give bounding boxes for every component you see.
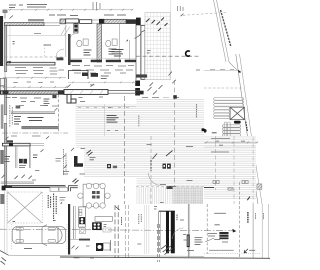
dark C hook mark	[186, 51, 190, 56]
garage west wall faint lines	[4, 190, 6, 253]
dark arrow mark	[60, 202, 62, 204]
window lines between piers	[92, 19, 99, 21]
dashed axis x174.5	[174, 80, 176, 204]
interior ceiling line	[7, 34, 66, 36]
bold slashes C3	[153, 151, 173, 160]
washer dark	[96, 243, 103, 251]
corner hatch marks	[1, 258, 7, 265]
interior faint line	[9, 26, 11, 61]
dim tick row	[72, 65, 134, 68]
axis end dark mark	[232, 229, 236, 233]
thin interior wall	[11, 111, 55, 113]
counter top squares	[79, 209, 82, 212]
bath text 3 (large block)	[112, 50, 124, 57]
corridor line	[71, 57, 137, 59]
bold slashes at dining door	[73, 179, 79, 184]
vertical texts	[255, 213, 257, 219]
L-foot	[71, 99, 76, 103]
texts under axis	[11, 135, 41, 137]
opening thin lines	[30, 143, 44, 145]
vertical lines east	[252, 204, 254, 258]
dark vertical text	[247, 212, 249, 223]
wc 2	[106, 40, 111, 46]
tile grid	[145, 13, 171, 80]
1.28 text	[249, 249, 255, 251]
B2 balcony dark bars	[82, 73, 88, 77]
diagonal mark	[205, 238, 214, 242]
vertical text columns	[10, 105, 13, 127]
west balcony slabs outlined	[0, 78, 4, 85]
5.8 text	[108, 107, 111, 109]
south boundary dark	[60, 257, 270, 258]
dark cluster bottom	[167, 186, 177, 189]
vertical dim text column top	[93, 2, 100, 10]
dark marks above wall	[7, 140, 14, 142]
sink counter bottom	[80, 228, 86, 234]
marker square white center	[107, 164, 111, 168]
stall marks	[213, 181, 248, 184]
dim text row 2	[49, 14, 126, 17]
arrow mark	[244, 249, 248, 253]
dark pier	[99, 19, 104, 24]
hatch steps	[228, 188, 233, 191]
dashed axis x151	[150, 136, 152, 204]
diagonal tick	[181, 14, 184, 17]
white wall rect center	[64, 90, 108, 95]
deck dash marks row2	[107, 130, 118, 132]
garage rotated text columns	[48, 194, 56, 220]
NE corner pillar	[136, 18, 141, 26]
wall end dark blocks	[3, 90, 9, 94]
stair cap	[159, 211, 175, 212]
axis dash-dot through plan	[0, 229, 236, 231]
bath text 2	[109, 49, 117, 54]
dim line	[204, 70, 238, 72]
divider dark block	[7, 61, 11, 63]
vertical board strip south	[137, 187, 173, 204]
chairs circles	[78, 183, 111, 208]
dashed line mid courtyard	[136, 55, 200, 57]
5.51 text	[32, 180, 66, 200]
thin wall line	[1, 181, 34, 183]
bath text 1	[84, 50, 92, 55]
bold slashes	[87, 150, 93, 156]
garage door X	[8, 192, 43, 223]
section pair 1	[115, 205, 118, 258]
wall pier white 1	[66, 19, 79, 23]
garage north wall	[4, 185, 65, 188]
sparse hatch inside	[70, 91, 103, 94]
door arc hall	[56, 49, 64, 57]
fixture block dark	[19, 159, 23, 164]
room label text block SE	[195, 238, 203, 245]
wall line	[110, 240, 112, 251]
slash marks above center wall	[67, 84, 94, 88]
hall dashed line	[5, 56, 64, 58]
road label rotated	[221, 10, 232, 47]
hatch pier	[60, 19, 66, 24]
neighbour gray bar lower	[1, 104, 4, 128]
counter	[79, 207, 86, 227]
hatch band east part	[104, 19, 126, 23]
marker squares pair	[163, 164, 167, 169]
bad text	[5, 157, 11, 162]
treppe rotated texts	[139, 214, 142, 224]
road slash mark	[247, 197, 250, 201]
axis dark dashes	[150, 160, 152, 171]
partition vertical 2	[29, 146, 31, 168]
vertical dim marks east of rooms	[64, 149, 67, 175]
furniture dark bars	[219, 232, 228, 239]
L-leg	[67, 94, 71, 103]
dashed edge	[136, 186, 204, 188]
SW corner boundary	[0, 251, 9, 256]
door arc	[173, 228, 184, 239]
dark band NE	[126, 19, 136, 24]
dim ticks y77.8	[4, 77, 61, 79]
dryer white	[104, 243, 111, 250]
terrace west edge line	[103, 104, 105, 136]
gray slab	[22, 126, 59, 129]
radiator marks	[16, 106, 21, 109]
tick marks courtyard	[169, 72, 176, 84]
marker pair 2	[113, 166, 117, 169]
2.26 text	[147, 144, 152, 146]
dotted line	[204, 252, 260, 254]
west window lines	[4, 72, 6, 79]
kitchen south wall	[79, 239, 90, 241]
dining room corner walls	[69, 186, 78, 192]
dashed axes south	[215, 136, 217, 190]
dark door post with hinges	[74, 24, 78, 33]
window opening lines	[44, 22, 60, 24]
1.11 text	[56, 159, 62, 162]
divider line right	[187, 204, 189, 258]
bath partition wall	[97, 24, 102, 62]
terrace text block	[107, 116, 119, 123]
room area text	[214, 212, 226, 214]
white rects right	[103, 228, 111, 232]
small text in grid	[147, 51, 151, 54]
east wall lower dark blocks	[135, 81, 140, 87]
dashed axis x124	[123, 96, 125, 204]
south edge line	[204, 187, 214, 189]
dim text row top-left	[9, 5, 47, 8]
stair top texts	[154, 202, 180, 209]
deck marks row	[78, 107, 129, 109]
door slash row	[2, 175, 32, 179]
section marks top	[116, 207, 120, 211]
dark L wall piece	[74, 156, 83, 167]
bath south wall segments	[71, 60, 137, 63]
survey dot CB	[203, 129, 207, 133]
text 1.18	[34, 32, 41, 34]
dim line	[204, 141, 258, 143]
dashed setback line	[204, 87, 244, 89]
text row 2	[211, 151, 229, 153]
west corner hatch band	[4, 23, 44, 26]
text below boundary	[74, 257, 95, 259]
wheels	[16, 228, 56, 243]
neighbour black wall bar	[0, 16, 3, 66]
shaft dark	[187, 235, 190, 248]
marks	[41, 149, 44, 152]
texts above row	[214, 225, 228, 242]
1.18 text east courtyard	[196, 69, 200, 71]
parking stripes band2	[222, 122, 240, 138]
west block 3	[0, 150, 4, 164]
east wall inner face	[135, 24, 137, 80]
road arrow dark	[238, 70, 241, 73]
partition line	[119, 24, 121, 62]
door arrow mark	[126, 39, 128, 41]
WOHNEN text	[28, 118, 44, 121]
hall partition faint lines	[144, 205, 149, 254]
light slashes	[63, 148, 75, 168]
texts below divider	[15, 68, 64, 75]
table setting dark cluster	[92, 191, 100, 199]
room divider wall	[2, 143, 30, 146]
car	[12, 225, 65, 246]
diagonal ticks	[6, 136, 50, 139]
kitchen west wall	[72, 206, 74, 239]
vertical partition	[65, 25, 67, 57]
door arc C3	[149, 173, 161, 185]
room label text block	[44, 99, 50, 106]
sink 2	[112, 39, 117, 45]
dim line y77.8	[3, 77, 66, 79]
corner tick NW	[10, 16, 14, 19]
rotated text east deck	[196, 104, 198, 118]
road rotated text	[246, 122, 248, 132]
threshold dark marks	[56, 57, 63, 60]
text row 1	[211, 137, 230, 139]
partition vertical 1	[15, 146, 17, 168]
survey marker B	[202, 128, 205, 131]
parking spot dotted bounds	[11, 224, 67, 249]
south boundary thin	[9, 255, 205, 256]
east wall white bar	[141, 25, 145, 79]
vertical text right of stairs	[176, 215, 178, 221]
island rect	[95, 217, 112, 222]
lintel gray bar	[28, 19, 44, 21]
west block 4	[0, 194, 4, 204]
room texts	[44, 44, 71, 46]
dimension line top	[8, 9, 133, 11]
hatched west part	[1, 91, 65, 94]
texts right of stairs	[180, 220, 187, 240]
long text row	[209, 249, 234, 251]
small block far NW (tree symbol)	[3, 10, 8, 14]
sink 1	[83, 39, 88, 45]
dim line B2	[68, 81, 136, 83]
door post cluster	[52, 95, 56, 98]
dark block at east wall	[136, 91, 144, 95]
apartment divider wall	[7, 62, 56, 65]
texts left of table	[63, 172, 85, 175]
1.38 text	[35, 170, 39, 172]
vertical text right	[121, 217, 123, 225]
appliance dark	[79, 217, 85, 224]
top small text column	[178, 6, 184, 11]
section dashed x58.3	[57, 95, 59, 134]
dining table	[83, 184, 104, 206]
thin line	[204, 146, 256, 148]
room label block	[14, 117, 21, 125]
cooktop cluster dark	[92, 222, 102, 230]
corridor west wall	[68, 34, 71, 65]
corridor text rows B2	[72, 70, 133, 73]
wall break zigzag	[135, 30, 146, 39]
room divider line	[129, 40, 131, 62]
stair bottom hatch	[161, 245, 173, 255]
faint dashed boundary to road	[183, 12, 228, 15]
text rows under wall	[6, 97, 104, 102]
dashed partition	[44, 44, 46, 57]
text near island	[104, 225, 107, 227]
4.30 text	[137, 243, 141, 245]
entrance door swings	[61, 26, 70, 36]
black car east	[234, 121, 241, 124]
stair core dark bars	[166, 211, 169, 253]
gwz text	[33, 155, 38, 158]
text under shaft	[187, 250, 194, 252]
door arc top	[71, 34, 75, 38]
party wall dark	[68, 204, 70, 255]
1.99 text	[86, 245, 90, 247]
section pair 2	[158, 224, 160, 262]
door swing slashes courtyard	[148, 83, 163, 95]
wall start block	[2, 186, 6, 191]
dim text under car	[24, 248, 32, 250]
courtyard dim row	[142, 97, 179, 100]
dash-dot axis y133	[2, 132, 68, 134]
dim text 1.18 row	[13, 81, 54, 84]
dimension ticks top	[9, 9, 133, 11]
east balcony slab	[136, 74, 147, 77]
tiny G text	[13, 42, 15, 44]
garage door box dotted	[8, 192, 43, 223]
east text column	[138, 116, 140, 127]
trellis X square	[230, 107, 244, 120]
stair side rail	[158, 212, 160, 253]
west wall double (gray)	[4, 26, 6, 72]
plant labels diagonal	[146, 18, 168, 32]
parking stripes band1	[214, 98, 244, 119]
texts C3	[160, 147, 193, 185]
thin double wall to east	[108, 89, 140, 91]
dim texts	[215, 141, 245, 145]
kitchen ticks	[72, 246, 79, 250]
section pair 2	[126, 205, 129, 258]
axis marker	[173, 95, 177, 99]
texts	[81, 149, 96, 160]
car top texts	[13, 221, 56, 222]
storage boxes along garage wall	[50, 187, 68, 191]
dashed border right	[239, 182, 241, 257]
dim line above wall	[3, 86, 68, 88]
wall pier white 2	[80, 20, 92, 24]
text left of furniture	[208, 234, 217, 237]
deck edge line	[76, 105, 136, 107]
texts above thin wall	[19, 105, 58, 108]
wall dark block	[9, 143, 13, 146]
dashed border left	[206, 204, 208, 254]
B2 balcony outline	[69, 71, 89, 80]
wc 1	[77, 40, 82, 46]
